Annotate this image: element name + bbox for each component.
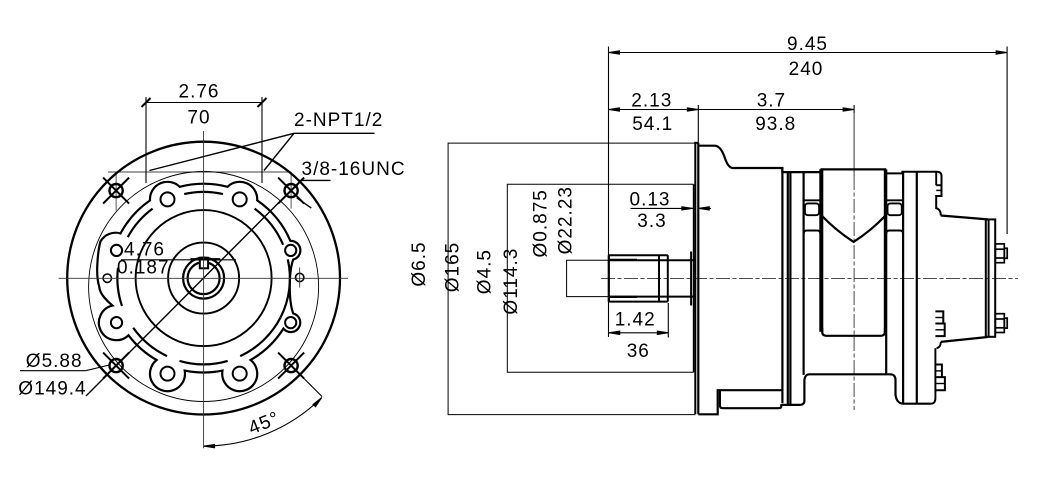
dimension dia5.88/149.4 xyxy=(20,370,86,372)
svg-text:2-NPT1/2: 2-NPT1/2 xyxy=(294,110,383,131)
dimension 45deg xyxy=(204,398,322,447)
V notch xyxy=(822,216,885,242)
dimension 3.7/93.8 xyxy=(698,109,854,111)
rear middle lug xyxy=(935,311,944,336)
dimension 2.13/54.1 xyxy=(609,109,699,111)
port plug fitting xyxy=(995,244,1007,263)
shaft seal circle xyxy=(183,258,224,299)
dimension 2.76/70 xyxy=(142,97,267,183)
wire horizontal centerline xyxy=(59,277,348,279)
wire 45deg construction line xyxy=(86,178,303,396)
inner circle 2 xyxy=(168,243,239,314)
motor body outline top xyxy=(698,146,995,415)
node port face chord xyxy=(108,171,291,173)
wire xyxy=(290,172,292,209)
shaft shoulder xyxy=(658,255,660,302)
pilot face xyxy=(693,184,695,372)
rear housing eccentric circle xyxy=(89,172,319,402)
label 2-NPT1/2 xyxy=(150,133,375,170)
shaft bore circle xyxy=(188,262,220,294)
wire xyxy=(115,172,117,211)
svg-text:240: 240 xyxy=(789,59,824,80)
tie bolt xyxy=(886,200,903,234)
rear lower lug xyxy=(935,365,945,391)
inner circle 1 xyxy=(136,210,272,346)
keyway xyxy=(200,258,208,269)
svg-text:3/8-16UNC: 3/8-16UNC xyxy=(302,159,406,180)
svg-text:2.13: 2.13 xyxy=(631,91,672,112)
bottom boss xyxy=(720,374,931,408)
port plate inner arcs xyxy=(240,317,280,356)
dia4.5/114.3 extension box xyxy=(507,184,693,372)
motor outer circle xyxy=(67,142,340,415)
gerotor hump top xyxy=(820,168,886,170)
dimension 9.45/240 xyxy=(609,52,1008,54)
svg-text:93.8: 93.8 xyxy=(755,114,796,135)
joint lines xyxy=(781,168,783,403)
wire extension lines xyxy=(609,47,1008,338)
svg-text:9.45: 9.45 xyxy=(787,34,828,55)
svg-text:2.76: 2.76 xyxy=(179,82,220,103)
dimension 1.42/36 xyxy=(609,332,669,334)
label 3/8-16UNC xyxy=(296,180,331,208)
rear cap xyxy=(986,219,995,336)
svg-text:Ø165: Ø165 xyxy=(443,242,464,292)
svg-text:Ø0.875: Ø0.875 xyxy=(531,189,552,257)
port plate scalloped outline xyxy=(97,182,300,391)
svg-text:Ø149.4: Ø149.4 xyxy=(18,379,86,400)
svg-text:Ø6.5: Ø6.5 xyxy=(409,241,430,286)
shaft xyxy=(608,255,610,302)
dimension 0.13/3.3 xyxy=(631,207,693,209)
svg-text:1.42: 1.42 xyxy=(615,309,656,330)
mounting hole 3/8-16UNC #4 xyxy=(278,353,304,379)
svg-text:Ø5.88: Ø5.88 xyxy=(26,351,83,372)
port plug fitting xyxy=(995,314,1007,333)
gerotor column left xyxy=(802,172,804,375)
dimension 4.76/0.187 keyway xyxy=(121,259,236,261)
key flat line xyxy=(191,258,221,260)
gerotor centerline vertical xyxy=(853,113,855,176)
dia6.5/165 extension box xyxy=(448,143,695,415)
wire vertical centerline xyxy=(203,131,205,448)
side view centerline xyxy=(601,277,1018,279)
svg-text:0.13: 0.13 xyxy=(630,190,671,211)
gerotor column right xyxy=(885,169,887,375)
flange xyxy=(694,143,696,415)
wire xyxy=(299,268,301,288)
svg-text:3.7: 3.7 xyxy=(757,91,786,112)
cavity wall left xyxy=(821,169,823,331)
mounting hole 3/8-16UNC #1 xyxy=(103,178,129,204)
dia0.875/22.23 extension box xyxy=(567,260,609,296)
mounting hole 3/8-16UNC #2 xyxy=(278,178,304,204)
rear taper top xyxy=(941,216,988,220)
svg-text:0.187: 0.187 xyxy=(117,258,170,279)
cavity wall right xyxy=(884,169,886,331)
rear upper lug xyxy=(935,172,937,186)
svg-text:Ø4.5: Ø4.5 xyxy=(474,249,495,294)
rear housing xyxy=(902,172,941,216)
svg-text:3.3: 3.3 xyxy=(637,211,666,232)
pin hole right xyxy=(296,273,304,281)
svg-text:36: 36 xyxy=(627,341,650,362)
cavity bottom xyxy=(822,328,885,336)
bolt holes x8 xyxy=(285,317,296,328)
svg-text:70: 70 xyxy=(187,108,210,129)
rear taper bottom xyxy=(941,337,988,342)
pin hole left xyxy=(103,274,111,282)
tie bolt xyxy=(804,200,821,234)
svg-text:54.1: 54.1 xyxy=(632,114,673,135)
mounting hole 3/8-16UNC #3 xyxy=(103,353,129,379)
svg-text:Ø114.3: Ø114.3 xyxy=(501,248,522,315)
svg-text:Ø22.23: Ø22.23 xyxy=(556,186,577,254)
